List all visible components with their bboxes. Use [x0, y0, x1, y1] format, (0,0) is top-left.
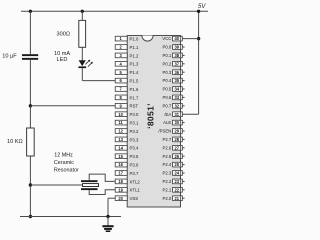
- pin 31 /EA: [164, 112, 198, 117]
- svg-text:VSS: VSS: [130, 196, 139, 201]
- pin 33 P0.6: [162, 95, 184, 100]
- pin 20 VSS: [115, 196, 138, 201]
- pin 22 P2.1: [162, 187, 184, 192]
- pin 18 XTL2: [115, 179, 140, 184]
- junction top rail / 5V drop: [197, 10, 200, 13]
- svg-text:37: 37: [175, 61, 180, 66]
- svg-text:P3.6: P3.6: [130, 163, 139, 168]
- svg-text:P0.0: P0.0: [162, 45, 171, 50]
- svg-text:26: 26: [175, 154, 180, 159]
- svg-text:VCC: VCC: [162, 36, 171, 41]
- svg-text:P3.7: P3.7: [130, 171, 139, 176]
- pin 28 P2.7: [162, 137, 184, 142]
- pin 9 RST: [115, 103, 138, 108]
- svg-text:25: 25: [175, 162, 180, 167]
- pin 29 /PSEN: [158, 129, 184, 134]
- svg-text:10 µF: 10 µF: [2, 53, 17, 59]
- wire ground bottom rail: [20, 216, 121, 218]
- svg-text:XTL2: XTL2: [130, 179, 141, 184]
- svg-text:P2.6: P2.6: [162, 145, 171, 150]
- svg-text:P2.7: P2.7: [162, 137, 171, 142]
- pin 13 P3.3: [115, 137, 139, 142]
- svg-text:11: 11: [118, 120, 123, 125]
- svg-text:300Ω: 300Ω: [57, 31, 71, 37]
- svg-text:P1.2: P1.2: [130, 53, 139, 58]
- svg-text:P0.7: P0.7: [162, 103, 171, 108]
- svg-text:P0.2: P0.2: [162, 61, 171, 66]
- wire LED to P1.5: [81, 68, 83, 81]
- pin 5 P1.4: [115, 70, 139, 75]
- svg-text:P2.5: P2.5: [162, 154, 171, 159]
- svg-text:40: 40: [175, 36, 180, 41]
- svg-text:31: 31: [175, 112, 180, 117]
- LED D1: [79, 60, 86, 66]
- pin 24 P2.3: [162, 171, 184, 176]
- pin 3 P1.2: [115, 53, 139, 58]
- svg-text:ALE: ALE: [163, 120, 171, 125]
- svg-text:P1.0: P1.0: [130, 37, 139, 42]
- svg-text:/PSEN: /PSEN: [158, 129, 171, 134]
- svg-text:22: 22: [175, 187, 180, 192]
- pin 12 P3.2: [115, 129, 139, 134]
- svg-text:LED: LED: [57, 57, 68, 63]
- pin 27 P2.6: [162, 145, 184, 150]
- svg-text:P0.4: P0.4: [162, 78, 171, 83]
- svg-text:32: 32: [175, 103, 180, 108]
- svg-text:12 MHz: 12 MHz: [54, 152, 73, 158]
- pin 25 P2.4: [162, 162, 184, 167]
- pin 37 P0.2: [162, 61, 184, 66]
- svg-text:19: 19: [118, 187, 123, 192]
- junction 5V drop / VCC pin: [197, 37, 200, 40]
- pin 1 P1.0: [115, 36, 139, 41]
- wire resistor to LED: [81, 47, 83, 60]
- wire cap to RST node: [29, 60, 31, 128]
- svg-text:18: 18: [118, 179, 123, 184]
- svg-text:13: 13: [118, 137, 123, 142]
- svg-text:14: 14: [118, 145, 123, 150]
- pin 6 P1.5: [115, 78, 139, 83]
- ground symbol: [107, 217, 109, 226]
- junction bottom rail: [29, 215, 32, 218]
- svg-text:28: 28: [175, 137, 180, 142]
- pin 7 P1.6: [115, 87, 139, 92]
- svg-text:17: 17: [118, 171, 123, 176]
- svg-text:P2.4: P2.4: [162, 162, 171, 167]
- resistor R1 300 ohm: [79, 20, 86, 47]
- svg-text:P2.2: P2.2: [162, 179, 171, 184]
- svg-text:P2.0: P2.0: [162, 196, 171, 201]
- svg-text:10 KΩ: 10 KΩ: [7, 139, 23, 145]
- svg-text:P1.3: P1.3: [130, 62, 139, 67]
- pin 16 P3.6: [115, 162, 139, 167]
- wire resistor branch top: [81, 11, 83, 20]
- svg-text:P3.2: P3.2: [130, 129, 139, 134]
- svg-text:5V: 5V: [198, 4, 206, 10]
- svg-text:P1.4: P1.4: [130, 70, 139, 75]
- svg-text:P3.1: P3.1: [130, 121, 139, 126]
- pin 21 P2.0: [162, 196, 184, 201]
- pin 2 P1.1: [115, 45, 139, 50]
- junction top rail / resistor branch: [81, 10, 84, 13]
- svg-text:RST: RST: [130, 104, 139, 109]
- wire resonator gnd entry: [30, 184, 82, 186]
- svg-text:P2.1: P2.1: [162, 187, 171, 192]
- wire 5V drop to VCC and /EA: [198, 11, 200, 114]
- svg-text:P0.1: P0.1: [162, 53, 171, 58]
- resonator Y1 plates: [81, 180, 98, 182]
- svg-text:12: 12: [118, 129, 123, 134]
- pin 35 P0.4: [162, 78, 184, 83]
- pin 26 P2.5: [162, 154, 184, 159]
- node RST junction: [29, 104, 32, 107]
- op IC U1 8051 body: [127, 36, 180, 208]
- svg-text:P1.5: P1.5: [130, 79, 139, 84]
- pin 32 P0.7: [162, 103, 184, 108]
- pin 39 P0.0: [162, 45, 184, 50]
- svg-text:35: 35: [175, 78, 180, 83]
- pin 34 P0.5: [162, 87, 184, 92]
- pin 14 P3.4: [115, 145, 139, 150]
- pin 30 ALE: [163, 120, 184, 125]
- svg-text:P3.3: P3.3: [130, 137, 139, 142]
- svg-text:34: 34: [175, 87, 180, 92]
- IC notch: [142, 36, 153, 42]
- svg-text:24: 24: [175, 171, 180, 176]
- wire 5V top rail: [21, 10, 208, 12]
- svg-text:P0.3: P0.3: [162, 70, 171, 75]
- svg-text:‘8051’: ‘8051’: [145, 103, 155, 129]
- capacitor C1 10uF: [22, 54, 38, 56]
- svg-text:P0.6: P0.6: [162, 95, 171, 100]
- svg-text:23: 23: [175, 179, 180, 184]
- svg-text:P3.5: P3.5: [130, 154, 139, 159]
- pin 19 XTL1: [115, 187, 140, 192]
- svg-text:21: 21: [175, 196, 180, 201]
- svg-text:XTL1: XTL1: [130, 188, 141, 193]
- svg-text:P1.6: P1.6: [130, 87, 139, 92]
- pin 8 P1.7: [115, 95, 139, 100]
- svg-text:20: 20: [118, 196, 123, 201]
- svg-text:10: 10: [118, 112, 123, 117]
- svg-text:P1.7: P1.7: [130, 95, 139, 100]
- pin 4 P1.3: [115, 61, 139, 66]
- svg-text:16: 16: [118, 162, 123, 167]
- svg-text:P3.0: P3.0: [130, 112, 139, 117]
- pin 15 P3.5: [115, 154, 139, 159]
- wire resonator to XTL2: [89, 174, 115, 181]
- svg-text:30: 30: [175, 120, 180, 125]
- pin 17 P3.7: [115, 171, 139, 176]
- svg-text:29: 29: [175, 129, 180, 134]
- svg-text:/EA: /EA: [164, 112, 171, 117]
- resistor R2 10K: [27, 128, 35, 156]
- svg-text:39: 39: [175, 45, 180, 50]
- svg-text:P1.1: P1.1: [130, 45, 139, 50]
- svg-text:38: 38: [175, 53, 180, 58]
- svg-text:27: 27: [175, 145, 180, 150]
- wire 10K to bottom rail: [29, 156, 31, 217]
- wire RST node to RST pin: [30, 105, 115, 107]
- pin 11 P3.1: [115, 120, 139, 125]
- junction resonator gnd branch: [29, 183, 32, 186]
- pin 23 P2.2: [162, 179, 184, 184]
- wire cap branch vertical: [29, 11, 31, 54]
- svg-text:P3.4: P3.4: [130, 146, 139, 151]
- junction top rail / cap branch: [29, 10, 32, 13]
- pin 38 P0.1: [162, 53, 184, 58]
- pin 10 P3.0: [115, 112, 139, 117]
- svg-text:P0.5: P0.5: [162, 87, 171, 92]
- wire VSS to ground: [108, 197, 115, 199]
- wire resonator to XTL1: [89, 190, 115, 195]
- svg-text:Ceramic: Ceramic: [54, 160, 74, 166]
- svg-text:15: 15: [118, 154, 123, 159]
- svg-text:Resonator: Resonator: [54, 167, 79, 173]
- svg-text:33: 33: [175, 95, 180, 100]
- svg-text:36: 36: [175, 70, 180, 75]
- pin 36 P0.3: [162, 70, 184, 75]
- junction ground stem: [106, 215, 109, 218]
- pin 40 VCC: [162, 36, 198, 41]
- svg-text:P2.3: P2.3: [162, 171, 171, 176]
